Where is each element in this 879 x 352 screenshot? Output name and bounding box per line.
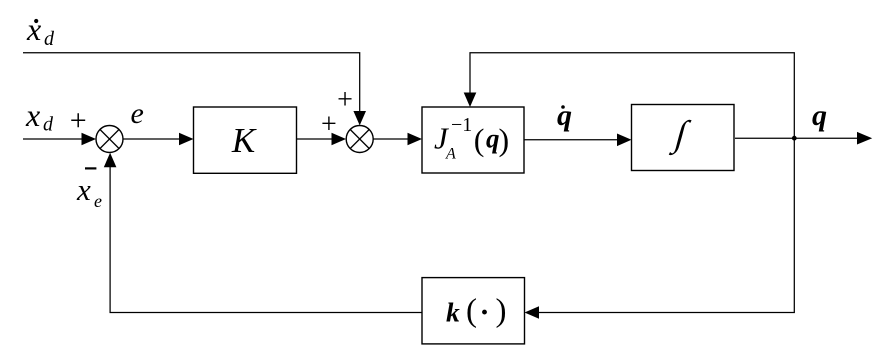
svg-text:e: e — [131, 97, 144, 130]
node junction dot on q line — [792, 136, 797, 141]
arrowhead into k block right — [525, 306, 540, 319]
block K gain — [194, 107, 297, 173]
arrowhead into summing junction 1 left — [82, 133, 97, 146]
svg-text:d: d — [44, 28, 55, 50]
wire feedforward xdot top-left — [23, 53, 360, 114]
svg-text:): ) — [496, 293, 507, 329]
svg-text:·: · — [480, 296, 490, 329]
svg-text:d: d — [43, 114, 54, 136]
wire integrator to output q — [735, 137, 858, 139]
svg-text:K: K — [231, 121, 257, 160]
label x-dot-d — [26, 11, 55, 50]
arrowhead into K block — [179, 133, 194, 146]
svg-text:q: q — [812, 99, 827, 132]
label x_d input — [25, 97, 54, 136]
block integrator — [632, 105, 735, 171]
svg-text:q: q — [557, 99, 572, 132]
svg-text:x: x — [76, 172, 91, 207]
wire Jacobian to integrator — [524, 139, 620, 141]
svg-text:+: + — [337, 85, 353, 116]
wire junction 2 to Jacobian block — [373, 138, 410, 140]
svg-text:(: ( — [474, 122, 485, 158]
label x_e — [76, 172, 102, 211]
svg-text:x: x — [26, 11, 41, 47]
arrowhead into summing junction 1 bottom — [104, 153, 117, 168]
svg-text:(: ( — [466, 293, 477, 329]
summing junction 2 — [346, 126, 373, 153]
svg-text:q: q — [486, 124, 500, 154]
wire q feedback from node up and into Jacobian top — [470, 53, 794, 138]
label q-dot — [557, 99, 572, 132]
svg-text:k: k — [446, 297, 460, 328]
label minus at junction 1 — [85, 167, 96, 169]
svg-text:x: x — [25, 97, 40, 133]
arrowhead into Jacobian block top — [464, 93, 477, 108]
summing junction 1 — [96, 126, 123, 153]
block direct kinematics k(.) — [422, 278, 525, 344]
block Jacobian inverse JA^-1(q) — [422, 107, 524, 173]
svg-text:A: A — [445, 146, 456, 163]
svg-text:e: e — [94, 191, 102, 211]
arrowhead into Jacobian block left — [408, 133, 423, 146]
arrowhead into integrator block — [617, 134, 632, 147]
wire K to junction 2 — [297, 138, 334, 140]
wire input x_d — [23, 138, 84, 140]
svg-text:): ) — [499, 122, 510, 158]
arrowhead into summing junction 2 top — [353, 111, 366, 125]
wire k output to junction 1 bottom — [110, 164, 422, 313]
wire e junction1 to K — [123, 138, 181, 140]
svg-text:+: + — [70, 104, 87, 137]
arrowhead output q — [857, 132, 872, 145]
arrowhead into summing junction 2 left — [332, 133, 347, 146]
wire q node down to k feedback — [536, 138, 794, 312]
svg-text:−1: −1 — [451, 114, 472, 136]
